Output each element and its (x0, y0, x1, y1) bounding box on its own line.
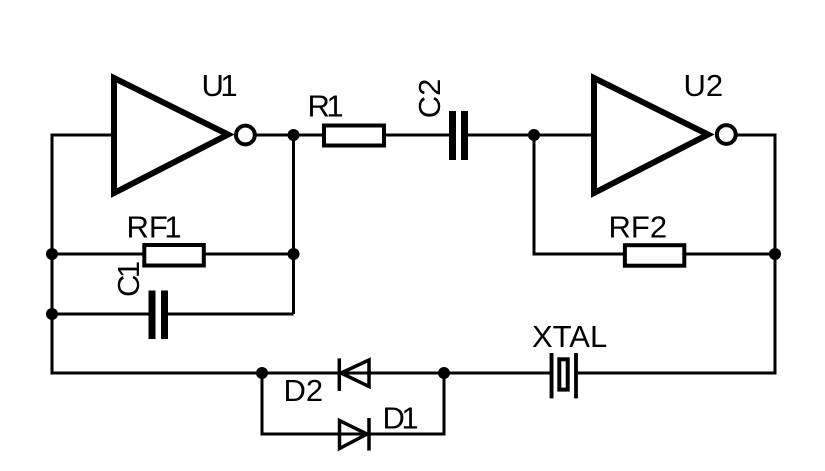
svg-text:RF1: RF1 (127, 209, 182, 244)
svg-text:U1: U1 (202, 68, 238, 103)
svg-text:XTAL: XTAL (532, 319, 607, 354)
svg-text:RF2: RF2 (609, 209, 668, 244)
svg-text:D2: D2 (284, 373, 324, 408)
svg-text:R1: R1 (308, 89, 344, 124)
svg-text:D1: D1 (383, 401, 419, 436)
svg-text:C2: C2 (412, 79, 447, 119)
svg-text:C1: C1 (111, 261, 146, 297)
svg-text:U2: U2 (684, 68, 724, 103)
